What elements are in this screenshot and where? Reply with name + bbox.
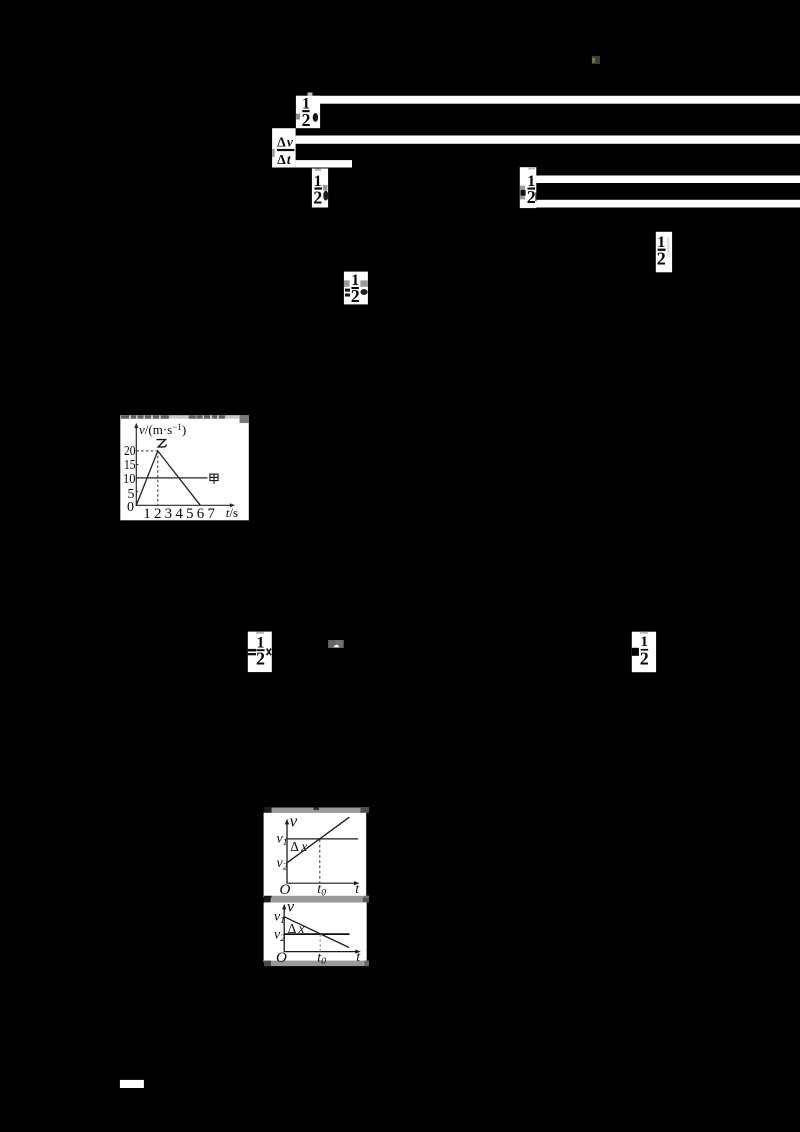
svg-text:Δt: Δt <box>277 152 292 167</box>
svg-text:15: 15 <box>124 458 136 473</box>
svg-text:0: 0 <box>127 500 134 515</box>
svg-text:Δx: Δx <box>290 839 307 854</box>
svg-text:2: 2 <box>313 187 322 207</box>
svg-text:v: v <box>290 811 298 830</box>
svg-text:2: 2 <box>256 649 265 669</box>
svg-text:1: 1 <box>641 634 649 650</box>
svg-text:20: 20 <box>124 444 136 459</box>
svg-text:2: 2 <box>640 649 649 669</box>
svg-text:10: 10 <box>123 472 136 487</box>
svg-text:O: O <box>280 882 291 898</box>
svg-text:v: v <box>287 899 295 916</box>
svg-text:O: O <box>276 950 287 966</box>
svg-text:3: 3 <box>165 506 173 522</box>
svg-text:t/s: t/s <box>226 505 238 520</box>
svg-text:1: 1 <box>143 506 151 522</box>
svg-text:5: 5 <box>186 506 194 522</box>
svg-text:2: 2 <box>657 248 666 268</box>
svg-text:7: 7 <box>207 506 215 522</box>
svg-text:2: 2 <box>154 506 162 522</box>
svg-text:2: 2 <box>527 187 536 207</box>
svg-text:2: 2 <box>351 286 360 306</box>
svg-text:4: 4 <box>175 506 183 522</box>
svg-text:Δv: Δv <box>277 134 294 149</box>
svg-text:2: 2 <box>302 110 311 130</box>
svg-text:6: 6 <box>197 506 205 522</box>
